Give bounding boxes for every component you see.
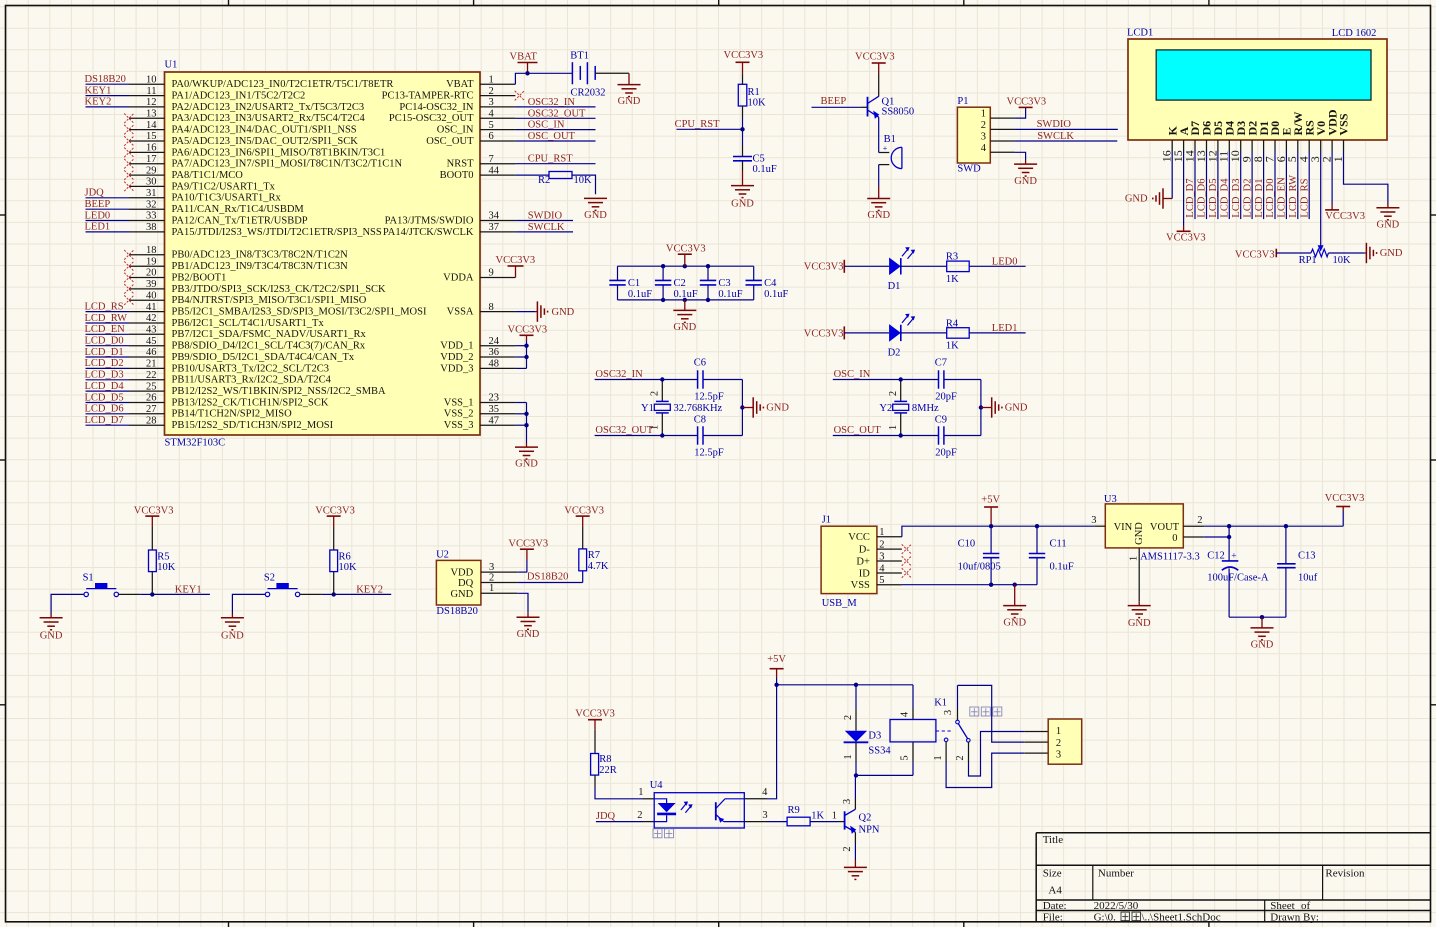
svg-text:PB13/I2S2_CK/T1CH1N/SPI2_SCK: PB13/I2S2_CK/T1CH1N/SPI2_SCK [172, 397, 329, 408]
svg-text:2: 2 [650, 391, 661, 396]
U1 pin 1 VBAT [446, 74, 515, 90]
svg-text:C1: C1 [628, 278, 640, 289]
net label JDQ wire [596, 811, 654, 822]
svg-text:3: 3 [981, 132, 986, 143]
svg-text:34: 34 [489, 211, 500, 222]
wire R8 to U4 pin1 [595, 787, 654, 799]
svg-text:5: 5 [489, 120, 494, 131]
U1 pin 10 PA0 [85, 74, 394, 90]
svg-text:LCD_D2: LCD_D2 [85, 358, 124, 369]
svg-text:of: of [1301, 900, 1311, 912]
svg-text:PA4/ADC123_IN4/DAC_OUT1/SPI1_N: PA4/ADC123_IN4/DAC_OUT1/SPI1_NSS [172, 125, 357, 136]
junction OSC32_OUT node [660, 433, 664, 437]
svg-text:36: 36 [489, 347, 500, 358]
net label OSC_OUT [515, 131, 595, 142]
svg-text:2: 2 [888, 391, 899, 396]
U1 pin 36 VDD_2 [440, 347, 515, 363]
svg-text:GND: GND [517, 629, 540, 640]
svg-text:SS34: SS34 [868, 745, 891, 756]
capacitor C10 10uf/0805 [958, 526, 1001, 585]
svg-text:K1: K1 [934, 697, 947, 708]
svg-text:4: 4 [489, 109, 495, 120]
svg-text:Title: Title [1043, 834, 1064, 846]
crystal Y2 8MHz [879, 380, 939, 436]
svg-text:A4: A4 [1048, 884, 1062, 896]
junction VOUT C12 top [1227, 524, 1231, 528]
svg-text:25: 25 [146, 381, 157, 392]
svg-text:GND: GND [40, 631, 63, 642]
svg-text:PB5/I2C1_SMBA/I2S3_SD/SPI3_MOS: PB5/I2C1_SMBA/I2S3_SD/SPI3_MOSI/T3C2/SPI… [172, 307, 427, 318]
svg-text:C13: C13 [1298, 550, 1316, 561]
svg-text:VDD_1: VDD_1 [440, 341, 473, 352]
U1 pin 47 VSS_3 [444, 415, 516, 431]
svg-text:3: 3 [489, 562, 494, 573]
svg-text:GND: GND [552, 307, 575, 318]
svg-text:GND: GND [515, 458, 538, 469]
svg-text:2: 2 [637, 810, 642, 821]
svg-text:GND: GND [1380, 248, 1403, 259]
svg-text:PA6/ADC123_IN6/SPI1_MISO/T8T1B: PA6/ADC123_IN6/SPI1_MISO/T8T1BKIN/T3C1 [172, 147, 386, 158]
svg-text:1K: 1K [946, 274, 959, 285]
svg-text:PA1/ADC123_IN1/T5C2/T2C2: PA1/ADC123_IN1/T5C2/T2C2 [172, 91, 306, 102]
U1 pin 41 PB5 [85, 301, 427, 317]
svg-text:VCC3V3: VCC3V3 [508, 538, 548, 549]
svg-text:16: 16 [146, 143, 157, 154]
net label LCD_D5 wire [1208, 152, 1219, 220]
U1 pin 39 PB3 [124, 279, 386, 295]
svg-text:D1: D1 [888, 281, 901, 292]
svg-text:LCD_RW: LCD_RW [1288, 175, 1299, 218]
ground GND Q2 [844, 844, 867, 879]
net label BEEP wire [812, 96, 868, 107]
wire D1 to R3 [901, 265, 947, 267]
ground GND S1 [40, 594, 84, 641]
svg-text:CPU_RST: CPU_RST [675, 119, 721, 130]
svg-text:LCD_D7: LCD_D7 [85, 415, 124, 426]
transistor Q2 NPN [842, 798, 880, 852]
svg-text:1: 1 [879, 527, 884, 538]
junction crystal gnd node [740, 405, 744, 409]
wire Q2 collector [854, 775, 856, 798]
svg-text:10K: 10K [1333, 255, 1352, 266]
svg-text:2: 2 [1197, 515, 1202, 526]
svg-text:8MHz: 8MHz [912, 403, 939, 414]
svg-text:21: 21 [146, 359, 157, 370]
svg-text:NPN: NPN [859, 825, 880, 836]
svg-text:3: 3 [1091, 515, 1096, 526]
svg-text:20: 20 [146, 268, 157, 279]
svg-text:PA15/JTDI/I2S3_WS/JTDI/T2C1ETR: PA15/JTDI/I2S3_WS/JTDI/T2C1ETR/SPI3_NSS [172, 227, 382, 238]
svg-text:PC13-TAMPER-RTC: PC13-TAMPER-RTC [382, 91, 474, 102]
svg-text:10K: 10K [574, 175, 593, 186]
svg-text:31: 31 [146, 188, 157, 199]
svg-text:PA11/CAN_Rx/T1C4/USBDM: PA11/CAN_Rx/T1C4/USBDM [172, 204, 305, 215]
svg-text:41: 41 [146, 302, 157, 313]
svg-text:U2: U2 [436, 550, 449, 561]
svg-text:LCD_D2: LCD_D2 [1242, 179, 1253, 218]
svg-text:VSS_1: VSS_1 [444, 397, 474, 408]
junction CPU_RST node [740, 127, 744, 131]
svg-text:GND: GND [1003, 618, 1026, 629]
svg-text:RP1: RP1 [1299, 255, 1317, 266]
svg-text:1: 1 [888, 425, 899, 430]
ground GND B1 [867, 186, 890, 221]
svg-text:15: 15 [146, 131, 157, 142]
svg-text:DS18B20: DS18B20 [436, 606, 477, 617]
svg-text:DQ: DQ [458, 578, 474, 589]
net label LCD_D3 wire [1231, 152, 1242, 220]
U1 pin 16 PA6 [124, 143, 385, 159]
wire caps to ground rail [703, 380, 742, 436]
wire U2 GND [517, 593, 528, 613]
battery BT1 CR2032 [570, 51, 605, 99]
svg-text:File:: File: [1043, 912, 1063, 924]
svg-text:VSS_2: VSS_2 [444, 409, 474, 420]
svg-text:C7: C7 [935, 357, 947, 368]
ground GND R2 [584, 198, 607, 221]
svg-text:KEY1: KEY1 [85, 85, 112, 96]
svg-text:1: 1 [832, 810, 837, 821]
svg-text:14: 14 [146, 120, 157, 131]
svg-text:DS18B20: DS18B20 [527, 572, 568, 583]
power VBAT [510, 52, 538, 74]
svg-text:4: 4 [900, 711, 911, 717]
wire LCD V0 to RP1 [1320, 152, 1322, 247]
svg-text:44: 44 [489, 165, 500, 176]
net label LCD_D0 wire [1265, 152, 1276, 220]
wire K1 common loop [958, 685, 1049, 742]
svg-text:29: 29 [146, 165, 157, 176]
svg-text:GND: GND [673, 322, 696, 333]
U1 pin 27 PB14 [85, 404, 293, 420]
svg-text:PA7/ADC123_IN7/SPI1_MOSI/T8C1N: PA7/ADC123_IN7/SPI1_MOSI/T8C1N/T3C2/T1C1… [172, 159, 403, 170]
svg-text:PB3/JTDO/SPI3_SCK/I2S3_CK/T2C2: PB3/JTDO/SPI3_SCK/I2S3_CK/T2C2/SPI1_SCK [172, 284, 387, 295]
svg-text:VSSA: VSSA [447, 307, 474, 318]
U1 pin 31 PA10 [85, 188, 282, 204]
svg-text:32.768KHz: 32.768KHz [674, 403, 723, 414]
net label OSC_IN [515, 120, 595, 131]
svg-text:PB6/I2C1_SCL/T4C1/USART1_Tx: PB6/I2C1_SCL/T4C1/USART1_Tx [172, 318, 325, 329]
svg-text:S2: S2 [264, 572, 275, 583]
svg-text:37: 37 [489, 222, 500, 233]
svg-text:10: 10 [146, 74, 157, 85]
svg-text:1K: 1K [811, 810, 824, 821]
svg-text:45: 45 [146, 336, 157, 347]
LED D1 [888, 247, 916, 292]
U1 pin 19 PB1 [124, 256, 348, 272]
svg-text:D+: D+ [856, 556, 870, 567]
svg-text:LCD_RW: LCD_RW [85, 313, 128, 324]
svg-text:LCD_D6: LCD_D6 [85, 404, 124, 415]
svg-text:R1: R1 [748, 87, 760, 98]
wire U4 pin4 to +5V [744, 685, 776, 799]
svg-text:Date:: Date: [1043, 900, 1067, 912]
wire Q1 emitter to B1 [878, 117, 880, 152]
U1 pin 20 PB2 [124, 268, 226, 284]
junction OSC_IN node [899, 377, 903, 381]
power VCC3V3 D1 [804, 260, 845, 273]
svg-text:LED1: LED1 [992, 323, 1018, 334]
IC U2 DS18B20 [436, 550, 517, 617]
svg-text:R9: R9 [788, 805, 800, 816]
svg-text:4: 4 [981, 143, 987, 154]
svg-text:0.1uF: 0.1uF [764, 289, 788, 300]
svg-text:OSC_IN: OSC_IN [528, 120, 565, 131]
resistor R4 1K [946, 318, 969, 351]
capacitor C6 top [694, 357, 724, 402]
svg-text:VOUT: VOUT [1150, 522, 1180, 533]
buzzer B1 [879, 134, 902, 168]
U1 pin 24 VDD_1 [440, 336, 515, 352]
ground GND VSSA [536, 301, 575, 321]
svg-text:LCD_D1: LCD_D1 [85, 347, 124, 358]
junction GND bottom [683, 298, 687, 302]
svg-text:24: 24 [489, 336, 500, 347]
svg-text:12.5pF: 12.5pF [694, 447, 724, 458]
U1 pin 29 PA8 [124, 165, 243, 181]
svg-text:R4: R4 [946, 318, 959, 329]
svg-text:STM32F103C: STM32F103C [165, 438, 226, 449]
svg-text:2: 2 [1056, 738, 1061, 749]
svg-text:LCD1: LCD1 [1127, 28, 1153, 39]
svg-text:G:\0.: G:\0. [1094, 912, 1117, 924]
junction C3 bottom [706, 298, 710, 302]
svg-text:12: 12 [146, 97, 157, 108]
svg-text:1: 1 [638, 787, 643, 798]
svg-text:LCD_D5: LCD_D5 [85, 392, 124, 403]
svg-text:Q2: Q2 [859, 812, 872, 823]
resistor R7 4.7K [579, 527, 609, 583]
svg-text:PA9/T1C2/USART1_Tx: PA9/T1C2/USART1_Tx [172, 181, 276, 192]
ground GND crystal Y2 [981, 397, 1028, 417]
svg-text:1: 1 [489, 583, 494, 594]
svg-text:47: 47 [489, 415, 500, 426]
svg-text:PA12/CAN_Tx/T1ETR/USBDP: PA12/CAN_Tx/T1ETR/USBDP [172, 215, 308, 226]
svg-text:C9: C9 [935, 414, 947, 425]
svg-text:20pF: 20pF [935, 447, 957, 458]
svg-text:4: 4 [879, 563, 885, 574]
terminal block relay output [1048, 719, 1082, 764]
svg-text:VDDA: VDDA [443, 272, 474, 283]
svg-text:Revision: Revision [1325, 867, 1365, 879]
wire OSC_IN to C top [901, 379, 939, 381]
no-connect mark J1 ID [902, 568, 912, 578]
svg-text:PA3/ADC123_IN3/USART2_Rx/T5C4/: PA3/ADC123_IN3/USART2_Rx/T5C4/T2C4 [172, 113, 366, 124]
svg-text:20pF: 20pF [935, 391, 957, 402]
junction D3 top [854, 683, 858, 687]
U1 pin 33 PA12 [85, 210, 308, 226]
svg-text:KEY2: KEY2 [356, 584, 383, 595]
svg-text:+5V: +5V [767, 654, 786, 665]
svg-text:2: 2 [879, 539, 884, 550]
svg-text:9: 9 [489, 268, 494, 279]
U1 pin 8 VSSA [447, 302, 516, 318]
net label OSC32_OUT wire [595, 425, 663, 436]
wire K1 pin1 to terminal 3 [946, 753, 1048, 787]
wire decoupling bus top [618, 265, 754, 267]
svg-text:BEEP: BEEP [821, 96, 847, 107]
svg-text:LCD_D0: LCD_D0 [1265, 179, 1276, 218]
svg-text:33: 33 [146, 211, 157, 222]
svg-text:SWCLK: SWCLK [528, 222, 565, 233]
svg-text:LCD_D3: LCD_D3 [1231, 179, 1242, 218]
svg-text:LCD_EN: LCD_EN [85, 324, 126, 335]
junction C2 top [661, 264, 665, 268]
LCD1 pins and pin numbers [1160, 109, 1351, 162]
svg-text:VCC3V3: VCC3V3 [1325, 493, 1365, 504]
svg-text:6: 6 [489, 131, 494, 142]
wire OSC32_IN to C top [662, 379, 697, 381]
ground GND crystal Y1 [742, 397, 789, 417]
svg-text:VCC3V3: VCC3V3 [724, 50, 764, 61]
svg-text:19: 19 [146, 256, 157, 267]
svg-text:0.1uF: 0.1uF [718, 289, 742, 300]
net label LCD_D7 wire [1185, 152, 1196, 220]
svg-text:OSC_OUT: OSC_OUT [528, 131, 576, 142]
svg-text:CPU_RST: CPU_RST [528, 154, 574, 165]
power VCC3V3 LCD VDD [1325, 152, 1365, 223]
svg-text:LCD 1602: LCD 1602 [1332, 28, 1377, 39]
svg-text:CR2032: CR2032 [571, 88, 606, 99]
svg-text:GND: GND [221, 631, 244, 642]
svg-text:+: + [883, 144, 888, 153]
power VCC3V3 P1 [1007, 96, 1047, 118]
wire R2 to ground [572, 175, 596, 194]
junction OSC_OUT node [899, 433, 903, 437]
junction KEY1 node [150, 592, 154, 596]
svg-text:VCC3V3: VCC3V3 [575, 709, 615, 720]
power VCC3V3 Q1 [855, 52, 895, 74]
svg-text:GND: GND [618, 96, 641, 107]
svg-text:4: 4 [762, 787, 768, 798]
U1 pin 22 PB11 [85, 370, 332, 386]
svg-text:13: 13 [146, 109, 157, 120]
switch S2 [264, 572, 300, 596]
U1 pin 6 OSC_OUT [426, 131, 515, 147]
svg-text:10uf/0805: 10uf/0805 [958, 562, 1001, 573]
U1 pin 21 PB10 [85, 358, 329, 374]
power +5V USB [981, 494, 1000, 526]
svg-text:VBAT: VBAT [510, 52, 538, 63]
svg-text:GND: GND [766, 403, 789, 414]
U1 pin 4 PC15-OSC32_OUT [389, 109, 516, 125]
svg-text:2: 2 [981, 120, 986, 131]
junction C3 top [706, 264, 710, 268]
svg-text:PB1/ADC123_IN9/T3C4/T8C3N/T1C3: PB1/ADC123_IN9/T3C4/T8C3N/T1C3N [172, 261, 349, 272]
U1 pin 17 PA7 [124, 154, 402, 170]
net label LED0 wire [969, 256, 1025, 267]
svg-text:2: 2 [955, 755, 966, 760]
svg-text:LCD_RS: LCD_RS [85, 301, 124, 312]
junction crystal gnd node [979, 405, 983, 409]
ground GND decoupling [673, 300, 696, 333]
no-connect mark J1 D- [902, 544, 912, 554]
wire C12 C13 gnd bus [1229, 616, 1286, 618]
svg-text:JDQ: JDQ [596, 811, 616, 822]
svg-text:PA10/T1C3/USART1_Rx: PA10/T1C3/USART1_Rx [172, 193, 282, 204]
power VCC3V3 R6 [315, 505, 355, 527]
U1 pin 34 PA13/JTMS/SWDIO [385, 211, 516, 227]
svg-text:R6: R6 [339, 551, 351, 562]
svg-text:AMS1117-3.3: AMS1117-3.3 [1140, 551, 1200, 562]
wire pin1 to battery [515, 73, 572, 84]
svg-text:3: 3 [1056, 749, 1061, 760]
svg-text:11: 11 [146, 86, 156, 97]
capacitor C11 0.1uF [1029, 526, 1074, 572]
net label DS18B20 wire [517, 572, 582, 583]
svg-text:VDD: VDD [450, 567, 473, 578]
diode D3 SS34 [843, 685, 892, 776]
U1 pin 44 BOOT0 [440, 165, 516, 181]
svg-text:46: 46 [146, 347, 157, 358]
LCD module LCD1 LCD1602 [1127, 28, 1387, 141]
optocoupler U4 [637, 780, 768, 828]
svg-text:1: 1 [1056, 726, 1061, 737]
U1 pin 9 VDDA [443, 268, 515, 284]
net label OSC32_OUT [515, 108, 595, 119]
capacitor C3 0.1uF [700, 266, 743, 300]
net label OSC_IN wire [833, 369, 901, 380]
svg-text:VDD_3: VDD_3 [440, 363, 473, 374]
U1 pin 7 NRST [447, 154, 516, 170]
svg-text:42: 42 [146, 313, 157, 324]
svg-text:PC15-OSC32_OUT: PC15-OSC32_OUT [389, 113, 474, 124]
svg-text:LCD_RS: LCD_RS [1299, 178, 1310, 217]
svg-text:PA8/T1C1/MCO: PA8/T1C1/MCO [172, 170, 244, 181]
svg-text:38: 38 [146, 222, 157, 233]
svg-text:LED0: LED0 [85, 210, 111, 221]
connector P1 SWD [957, 96, 1014, 174]
svg-text:2: 2 [489, 86, 494, 97]
net label LCD_D4 wire [1220, 152, 1231, 220]
svg-text:R5: R5 [157, 551, 169, 562]
svg-text:USB_M: USB_M [822, 598, 858, 609]
svg-text:SWCLK: SWCLK [1037, 131, 1074, 142]
wire R1 to junction [742, 117, 744, 146]
U1 pin 37 PA14/JTCK/SWCLK [383, 222, 516, 238]
svg-text:22R: 22R [599, 765, 617, 776]
svg-text:1K: 1K [946, 340, 959, 351]
svg-text:PB12/I2S2_WS/T1BKIN/SPI2_NSS/I: PB12/I2S2_WS/T1BKIN/SPI2_NSS/I2C2_SMBA [172, 386, 387, 397]
svg-text:LCD_D0: LCD_D0 [85, 336, 124, 347]
svg-text:3: 3 [943, 710, 954, 715]
power VCC3V3 LCD A [1166, 152, 1206, 244]
wire battery to ground [595, 73, 629, 84]
svg-text:U3: U3 [1104, 494, 1117, 505]
net label OSC32_IN wire [595, 369, 663, 380]
svg-text:SS8050: SS8050 [882, 106, 915, 117]
svg-text:2: 2 [842, 846, 853, 851]
net label LCD_RW wire [1288, 152, 1299, 220]
power VCC3V3 decoupling [666, 244, 706, 267]
junction +5V C10 [989, 524, 993, 528]
U1 pin 46 PB9 [85, 347, 355, 363]
U1 pin 15 PA5 [124, 131, 358, 147]
svg-text:VCC3V3: VCC3V3 [1007, 96, 1047, 107]
wire BOOT0 to R2 [515, 174, 549, 176]
U1 pin 11 PA1 [85, 85, 306, 101]
svg-text:0.1uF: 0.1uF [753, 164, 777, 175]
capacitor C4 0.1uF [746, 266, 789, 300]
svg-text:GND: GND [1134, 522, 1145, 545]
svg-text:R7: R7 [588, 550, 600, 561]
resistor R3 1K [946, 252, 969, 285]
U1 pin 3 PC14-OSC32_IN [399, 97, 515, 113]
resistor R1 10K [738, 73, 766, 117]
svg-text:17: 17 [146, 154, 157, 165]
svg-text:1: 1 [489, 74, 494, 85]
svg-text:Size: Size [1043, 867, 1062, 879]
